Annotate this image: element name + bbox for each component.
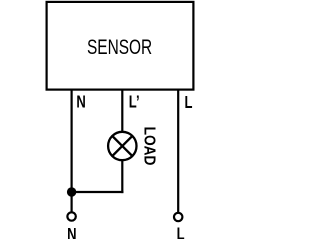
svg-text:L’: L’	[129, 93, 140, 112]
svg-text:L: L	[177, 225, 185, 239]
svg-text:SENSOR: SENSOR	[87, 35, 152, 59]
svg-text:LOAD: LOAD	[140, 127, 157, 166]
svg-text:L: L	[185, 93, 193, 112]
svg-text:N: N	[67, 225, 76, 239]
svg-text:N: N	[76, 93, 85, 112]
